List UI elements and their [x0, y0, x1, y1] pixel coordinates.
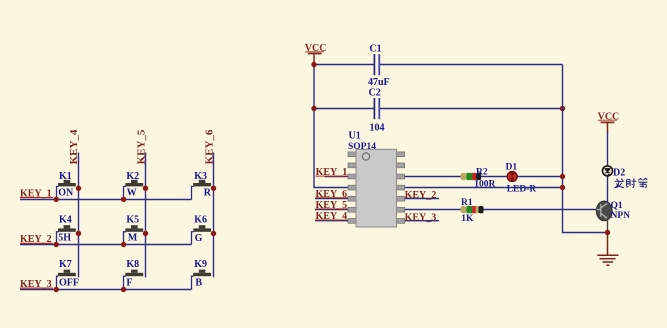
svg-text:R1: R1 [461, 198, 473, 208]
U1 pin 9 (right) [396, 207, 404, 212]
svg-text:D2: D2 [613, 168, 625, 179]
junction dot right rail/line2 [560, 106, 565, 111]
resistor R2 [461, 167, 496, 189]
svg-text:104: 104 [370, 122, 385, 133]
svg-text:K4: K4 [59, 214, 72, 225]
wire: R1 to Q1 base [484, 209, 597, 211]
wire: R2 to D1 [481, 176, 507, 178]
wire: second line C2 to right rail [379, 108, 562, 110]
net label KEY_4 (IC left) [316, 211, 348, 222]
switch K4 [57, 214, 76, 244]
net label KEY_1 (IC left) [316, 167, 348, 178]
svg-text:NPN: NPN [611, 211, 631, 221]
svg-text:KEY_2: KEY_2 [405, 190, 437, 201]
svg-text:M: M [128, 233, 138, 244]
svg-text:VCC: VCC [598, 111, 620, 122]
wire: pin6 right to R1 [405, 209, 461, 211]
power port VCC (right) [598, 111, 620, 133]
svg-text:R: R [204, 188, 212, 199]
wire: column KEY_6 vertical [213, 153, 215, 278]
junction K6 pin to column KEY_6 [211, 231, 216, 236]
U1 pin 10 (right) [396, 196, 404, 201]
svg-text:5H: 5H [58, 233, 71, 244]
wire: Q1 collector up to D2 [607, 176, 609, 203]
junction K1 pin to row KEY_1 [54, 197, 59, 202]
wire: D1 to right rail [517, 176, 562, 178]
U1 pin 11 (right) [396, 185, 404, 190]
U1 pin 13 (right) [396, 163, 404, 168]
junction K4 pin to column KEY_4 [76, 231, 81, 236]
U1 pin 8 (right) [396, 219, 404, 224]
wire: top line C1 to right rail [379, 64, 562, 66]
wire: KEY_3 stub pin7 right [405, 220, 439, 222]
svg-text:F: F [126, 278, 132, 289]
resistor R1 [461, 198, 484, 224]
svg-text:KEY_4: KEY_4 [316, 211, 348, 222]
wire: row KEY_1 horizontal [20, 199, 192, 201]
junction dot rail/D1 line [560, 174, 565, 179]
capacitor C1 [368, 43, 390, 88]
wire: KEY_5 stub pin6 left [315, 209, 348, 211]
svg-text:Q1: Q1 [611, 201, 623, 211]
U1 pin 12 (right) [396, 174, 404, 179]
wire: KEY_4 stub pin7 left [315, 220, 348, 222]
svg-text:B: B [195, 278, 202, 289]
U1 pin 2 (left) [348, 163, 356, 168]
switch K5 [124, 214, 144, 244]
wire: KEY_2 stub pin5 right [405, 198, 439, 200]
svg-text:K1: K1 [59, 171, 72, 182]
svg-text:KEY_5: KEY_5 [136, 129, 148, 164]
junction dot VCC/line2 [311, 106, 316, 111]
wire: column KEY_4 vertical [78, 153, 80, 278]
junction K2 pin to column KEY_5 [143, 186, 148, 191]
svg-text:KEY_6: KEY_6 [203, 129, 215, 164]
svg-text:KEY_3: KEY_3 [405, 212, 437, 223]
wire: Q1 emitter down to ground node [607, 218, 609, 233]
wire: pin4 right to rail (LED return) [405, 187, 563, 189]
wire: right rail vertical [563, 65, 608, 233]
svg-text:K2: K2 [126, 171, 139, 182]
wire: KEY_1 stub to pin3 left [325, 176, 348, 178]
junction K3 pin to column KEY_6 [211, 186, 216, 191]
svg-text:K6: K6 [194, 214, 207, 225]
U1 pin 4 (left) [348, 185, 356, 190]
switch K8 [124, 259, 144, 290]
wire: VCC left rail vertical [314, 65, 348, 188]
junction K7 pin to row KEY_3 [54, 287, 59, 292]
junction dot emitter/rail/ground [605, 230, 610, 235]
ground [597, 234, 618, 265]
wire: column KEY_5 vertical [145, 153, 147, 278]
net label KEY_3 (IC right) [405, 212, 437, 223]
svg-text:K9: K9 [194, 259, 207, 270]
svg-text:C2: C2 [369, 87, 381, 98]
U1 pin 7 (left) [348, 219, 356, 224]
switch K9 [192, 259, 212, 290]
U1 pin 6 (left) [348, 207, 356, 212]
pin-1 indicator circle [362, 153, 369, 160]
wire: row KEY_2 horizontal [20, 244, 192, 246]
label 发射管 (hand-drawn glyphs) [614, 178, 647, 188]
svg-text:SOP14: SOP14 [348, 142, 376, 152]
svg-text:C1: C1 [369, 43, 381, 54]
capacitor C2 [369, 87, 385, 133]
svg-text:KEY_5: KEY_5 [316, 200, 348, 211]
wire: pin3 right to R2 [405, 176, 461, 178]
svg-text:LED-R: LED-R [507, 185, 537, 195]
svg-text:OFF: OFF [59, 278, 79, 289]
net label KEY_2 (IC right) [405, 190, 437, 201]
switch K6 [192, 214, 212, 244]
svg-text:K5: K5 [126, 214, 139, 225]
svg-text:D1: D1 [506, 163, 518, 173]
junction K2 pin to row KEY_1 [121, 197, 126, 202]
U1 pin 5 (left) [348, 196, 356, 201]
wire: row KEY_3 horizontal [20, 289, 192, 291]
svg-text:KEY_6: KEY_6 [316, 189, 348, 200]
net label KEY_3 [20, 279, 53, 290]
svg-text:K7: K7 [59, 259, 72, 270]
switch K7 [57, 259, 80, 290]
diode D2 (emitter tube) [603, 166, 626, 179]
junction K5 pin to row KEY_2 [121, 242, 126, 247]
power port VCC (left) [305, 43, 327, 65]
junction K1 pin to column KEY_4 [76, 186, 81, 191]
svg-text:K3: K3 [194, 171, 207, 182]
svg-text:ON: ON [58, 188, 74, 199]
IC body rect [356, 149, 397, 227]
svg-text:U1: U1 [349, 130, 361, 141]
junction K5 pin to column KEY_5 [143, 231, 148, 236]
junction dot rail/pin4 line [560, 185, 565, 190]
wire: second line to C2 [314, 108, 374, 110]
transistor Q1 NPN [596, 201, 630, 221]
svg-text:K8: K8 [126, 259, 139, 270]
U1 pin 3 (left) [348, 174, 356, 179]
junction K8 pin to row KEY_3 [121, 287, 126, 292]
wire: top line to C1 [314, 64, 374, 66]
net label KEY_6 (IC left) [316, 189, 348, 200]
net label KEY_5 (IC left) [316, 200, 348, 211]
junction K4 pin to row KEY_2 [54, 242, 59, 247]
junction dot VCC/line1 [311, 62, 316, 67]
svg-text:W: W [127, 188, 137, 199]
wire: KEY_6 stub pin5 left [315, 198, 348, 200]
switch K2 [124, 171, 144, 200]
U1 pin 1 (left) [348, 152, 356, 157]
switch K3 [192, 171, 212, 200]
svg-text:KEY_4: KEY_4 [68, 129, 80, 164]
svg-text:G: G [195, 233, 203, 244]
LED D1 [506, 163, 537, 195]
svg-text:1K: 1K [461, 214, 474, 224]
wire: VCC right down to D2 [607, 132, 609, 166]
net label KEY_1 [20, 188, 53, 199]
net label KEY_2 [20, 234, 53, 245]
U1 pin 14 (right) [396, 152, 404, 157]
switch K1 [57, 171, 76, 200]
